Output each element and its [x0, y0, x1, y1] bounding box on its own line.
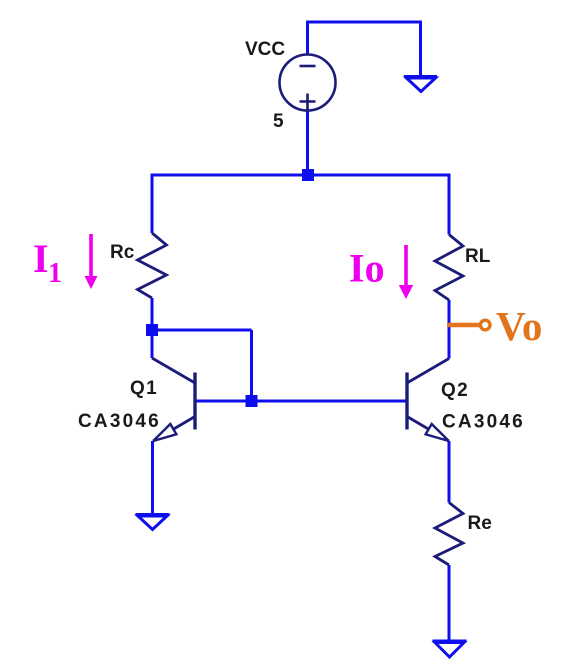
svg-text:1: 1 [48, 258, 62, 289]
wire RL bottom to Q2 collector [448, 300, 451, 359]
ground under Q1 [136, 515, 170, 530]
wire node to corner right [152, 329, 252, 332]
transistor Q1 (mirrored NPN) [152, 358, 195, 441]
resistor Re [435, 503, 463, 566]
output terminal circle Vo [480, 320, 490, 330]
svg-text:RL: RL [465, 246, 491, 267]
resistor RL [435, 235, 463, 301]
node junction base wire [246, 395, 258, 407]
wire rail to Rc top [151, 174, 154, 234]
wire down to top-right ground [419, 21, 422, 77]
voltage source V1 circle [280, 55, 336, 111]
svg-text:Q2: Q2 [441, 380, 469, 401]
svg-text:5: 5 [273, 111, 284, 132]
ground under Re [433, 641, 467, 657]
current arrow I1 [85, 234, 98, 289]
node junction below Rc [146, 324, 158, 336]
svg-text:Io: Io [349, 246, 385, 291]
wire rail horizontal [152, 174, 449, 177]
svg-text:Rc: Rc [110, 242, 135, 263]
svg-text:CA3046: CA3046 [442, 412, 525, 433]
svg-text:Re: Re [468, 513, 492, 534]
svg-text:VCC: VCC [245, 39, 285, 60]
wire VCC bottom to rail [306, 111, 309, 176]
wire node down to Q1 collector [151, 330, 154, 358]
resistor Rc [138, 233, 167, 298]
svg-text:CA3046: CA3046 [78, 411, 161, 432]
svg-text:Vo: Vo [496, 303, 542, 349]
wire Q2 emitter to Re [448, 441, 451, 503]
voltage source minus sign [300, 65, 316, 68]
wire Q1 emitter to ground [151, 441, 154, 515]
wire base Q1 to base Q2 [195, 400, 407, 403]
current arrow Io [399, 245, 413, 299]
node junction rail-VCC [302, 169, 314, 181]
svg-text:I: I [33, 236, 49, 281]
wire corner down to base node [250, 330, 253, 401]
ground top-right [404, 77, 437, 92]
svg-text:Q1: Q1 [130, 378, 158, 399]
wire Rc bottom to node [151, 298, 154, 330]
wire Re bottom to ground [448, 565, 451, 641]
wire rail to RL top [448, 174, 451, 235]
wire top horizontal from VCC top to ground [308, 21, 421, 24]
wire VCC top stub [306, 21, 309, 55]
output tap wire Vo (orange) [447, 323, 479, 328]
transistor Q2 (NPN) [407, 359, 449, 442]
voltage source plus sign [300, 94, 316, 110]
